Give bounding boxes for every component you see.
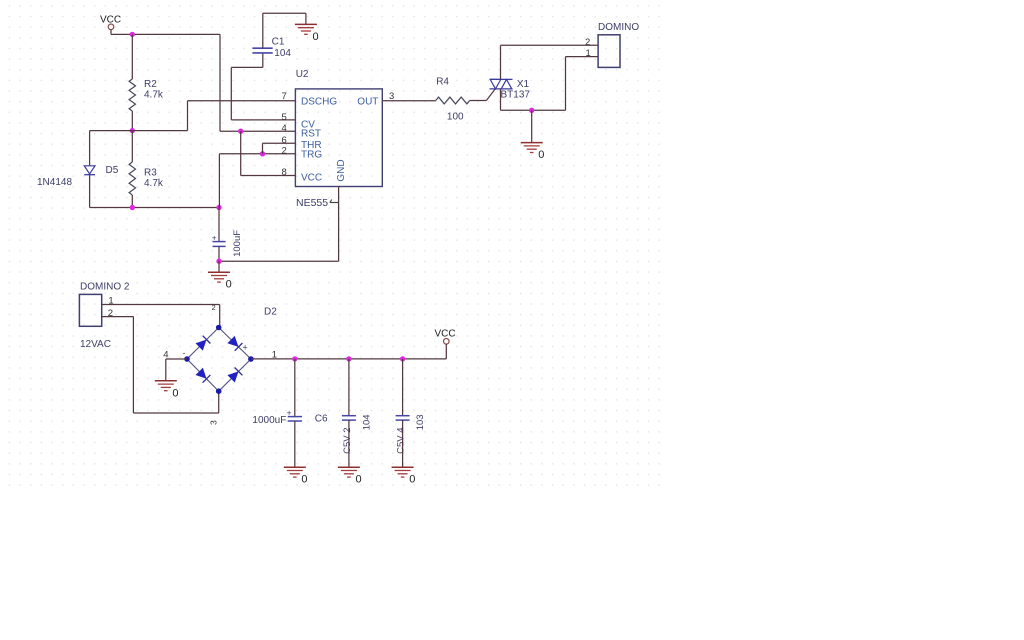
svg-text:C1: C1: [272, 36, 285, 47]
ground 0 (C6): [338, 466, 360, 468]
svg-text:R4: R4: [436, 77, 449, 88]
wire bridge pin 4 to ground: [166, 358, 187, 360]
svg-text:VCC: VCC: [301, 173, 322, 184]
bridge pin dot right: [248, 356, 254, 362]
bridge diode bottom-left: [196, 368, 207, 379]
svg-text:104: 104: [362, 414, 373, 430]
capacitor 100uF (electrolytic): [218, 208, 220, 242]
svg-text:0: 0: [538, 149, 544, 161]
resistor R2 4.7k: [131, 34, 133, 79]
wire RST pin 4: [220, 130, 295, 132]
wire bottom rail of divider: [90, 207, 219, 209]
bridge diode bottom-right: [227, 371, 238, 382]
svg-text:+: +: [243, 342, 248, 352]
wire triac MT2 up: [500, 45, 502, 79]
resistor R3 4.7k: [131, 131, 133, 162]
svg-text:-: -: [183, 348, 186, 358]
ground 0 (103 cap): [392, 466, 414, 468]
diode bridge D2: [187, 328, 219, 360]
node junction VCC/R2: [130, 32, 135, 37]
svg-text:1: 1: [586, 48, 591, 59]
ground 0 (bridge): [155, 380, 177, 382]
wire THR pin 6: [262, 143, 264, 154]
svg-text:103: 103: [415, 414, 426, 430]
svg-text:2: 2: [212, 303, 216, 312]
svg-text:0: 0: [172, 387, 178, 399]
node junction TRG/THR: [260, 151, 265, 156]
svg-text:+: +: [287, 407, 292, 417]
svg-text:2: 2: [282, 145, 287, 156]
svg-text:7: 7: [282, 91, 287, 102]
node junction R2/R3/DSCHG: [130, 128, 135, 133]
svg-text:NE555: NE555: [296, 197, 328, 209]
svg-text:100: 100: [447, 112, 464, 123]
wire DOMINO2 pin1 to bridge top: [102, 304, 220, 306]
svg-text:DSCHG: DSCHG: [301, 96, 337, 107]
svg-text:4: 4: [282, 123, 287, 134]
wire GND pin to rail: [338, 187, 340, 262]
svg-text:104: 104: [274, 48, 291, 59]
capacitor C1 104: [262, 53, 264, 67]
wire DOMINO pin 1: [565, 57, 567, 111]
ground 0 (triac): [531, 110, 533, 142]
wire DOMINO2 pin2 to bridge bottom: [102, 316, 134, 318]
bridge diode top-left: [196, 340, 207, 351]
svg-text:6: 6: [282, 135, 287, 146]
node junction rail/C6: [346, 356, 351, 361]
wire DC rail to VCC: [251, 358, 446, 360]
svg-text:DOMINO: DOMINO: [598, 22, 639, 33]
svg-text:X1: X1: [517, 79, 530, 90]
svg-text:3: 3: [209, 420, 219, 425]
svg-text:8: 8: [282, 167, 287, 178]
svg-text:D2: D2: [264, 307, 277, 318]
op-amp U2 NE555 body: [295, 89, 382, 187]
capacitor 1000uF: [294, 359, 296, 417]
node junction gnd tap: [529, 108, 534, 113]
svg-text:100uF: 100uF: [232, 230, 243, 257]
transistor X1 BT137 triac: [486, 89, 495, 101]
svg-text:OUT: OUT: [357, 96, 378, 107]
wire to diode D5: [90, 130, 133, 132]
wire OUT pin 3: [382, 100, 435, 102]
bridge pin dot bottom: [216, 388, 222, 394]
svg-text:U2: U2: [296, 69, 309, 80]
svg-text:12VAC: 12VAC: [80, 339, 111, 350]
wire CV pin 5 to C1: [231, 119, 295, 121]
svg-text:C5V 2: C5V 2: [342, 427, 353, 453]
svg-text:4.7k: 4.7k: [144, 90, 164, 101]
ground 0 (1000uF): [284, 466, 306, 468]
svg-text:C5V 4: C5V 4: [396, 427, 407, 453]
svg-text:0: 0: [301, 474, 307, 486]
svg-text:D5: D5: [106, 165, 119, 176]
bridge pin dot left: [184, 356, 190, 362]
svg-text:BT137: BT137: [501, 90, 531, 101]
node junction cap/gnd wire: [216, 259, 221, 264]
svg-text:4.7k: 4.7k: [144, 178, 164, 189]
wire VCC horizontal rail: [111, 33, 220, 35]
svg-text:TRG: TRG: [301, 150, 322, 161]
svg-text:GND: GND: [336, 159, 347, 181]
svg-text:0: 0: [226, 279, 232, 291]
svg-text:R2: R2: [144, 79, 157, 90]
ground 0 (below 100uF): [218, 261, 220, 272]
node junction rail/103 cap: [400, 356, 405, 361]
wire DOMINO pin 2: [501, 44, 599, 46]
wire R4 to triac gate: [470, 100, 487, 102]
bridge pin dot top: [216, 325, 222, 331]
wire TRG pin 2: [218, 154, 220, 208]
svg-text:1N4148: 1N4148: [37, 177, 72, 188]
svg-text:0: 0: [356, 474, 362, 486]
capacitor C6 104: [348, 359, 350, 416]
wire VCC rail vertical to RST: [219, 34, 221, 131]
wire triac bottom to DOMINO pin1: [501, 109, 566, 111]
svg-text:C6: C6: [315, 414, 328, 425]
node junction rail/1000uF: [292, 356, 297, 361]
node junction rail/TRG/cap: [216, 205, 221, 210]
wire to VCC pin 8: [240, 131, 242, 175]
node junction RST/VCC pin8: [238, 129, 243, 134]
svg-text:0: 0: [409, 474, 415, 486]
svg-text:2: 2: [108, 308, 113, 319]
svg-text:+: +: [212, 232, 217, 242]
wire triac MT1 down: [500, 89, 502, 110]
svg-text:RST: RST: [301, 128, 321, 139]
svg-text:0: 0: [313, 31, 319, 43]
svg-text:R3: R3: [144, 168, 157, 179]
wire C1 to ground: [263, 12, 306, 14]
svg-text:VCC: VCC: [435, 328, 456, 339]
svg-text:4: 4: [163, 350, 168, 361]
bridge diode top-right: [227, 336, 238, 347]
pin 1 tick mark: [330, 202, 339, 204]
diode D5 1N4148: [84, 166, 95, 174]
wire DSCHG pin 7 branch: [132, 130, 187, 132]
capacitor 103: [402, 359, 404, 416]
svg-text:DOMINO 2: DOMINO 2: [80, 281, 130, 292]
svg-text:2: 2: [585, 37, 590, 48]
node junction R3/rail: [130, 205, 135, 210]
svg-text:1000uF: 1000uF: [252, 415, 286, 426]
ground 0 (top, near C1): [295, 23, 317, 25]
resistor R4 100: [436, 97, 470, 104]
svg-text:5: 5: [282, 112, 287, 123]
